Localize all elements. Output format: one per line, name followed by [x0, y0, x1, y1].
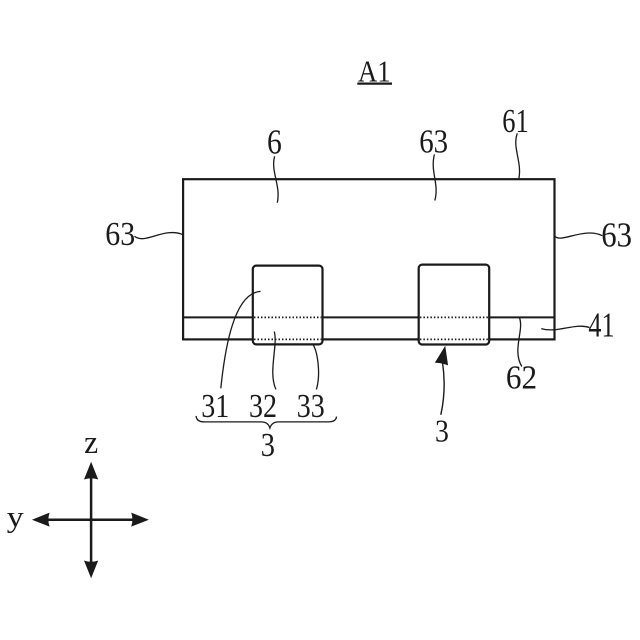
leader 63 right [555, 233, 603, 238]
layer 41 top line (solid segments) [184, 316, 554, 318]
leader 61 [516, 133, 520, 179]
arrow to chip 3 right [436, 347, 448, 415]
svg-text:63: 63 [105, 216, 135, 253]
leader 31 [221, 291, 261, 388]
svg-text:61: 61 [502, 103, 529, 140]
body 6 (main rectangle) [183, 179, 554, 339]
hidden line (dotted) through left chip, bottom of 41 [254, 338, 321, 340]
title A1 [357, 54, 392, 88]
leader 62 [518, 318, 522, 367]
chip 3 left [253, 266, 323, 345]
svg-text:33: 33 [297, 388, 325, 425]
leader 63 top [433, 154, 436, 200]
leader 41 [541, 326, 589, 330]
svg-text:31: 31 [201, 388, 229, 425]
svg-text:41: 41 [588, 305, 614, 344]
svg-text:3: 3 [261, 427, 275, 464]
chip 3 right [419, 265, 490, 345]
axis cross [32, 462, 149, 578]
leader 63 left [135, 233, 184, 239]
leader 32 [273, 332, 276, 390]
leader 33 [313, 345, 318, 390]
svg-text:6: 6 [267, 122, 282, 161]
underbrace for 3 [196, 416, 336, 428]
hidden line (dotted) through right chip, bottom of 41 [420, 338, 488, 340]
svg-text:y: y [7, 500, 24, 533]
hidden line (dotted) through left chip, level 62 [254, 316, 321, 318]
svg-text:3: 3 [435, 412, 449, 448]
svg-text:63: 63 [601, 217, 632, 255]
leader 6 [274, 156, 278, 203]
svg-text:32: 32 [249, 388, 277, 425]
hidden line (dotted) through right chip, level 62 [420, 316, 488, 318]
svg-text:z: z [84, 425, 98, 461]
